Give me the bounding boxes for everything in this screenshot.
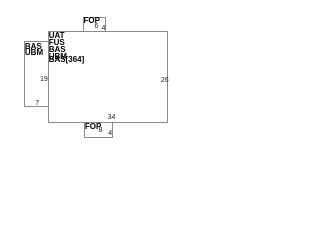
dimension 4 (bottom porch height) <box>108 130 112 137</box>
label BAS[364] <box>49 56 85 64</box>
label BAS <box>49 46 66 54</box>
dimension 8 (bottom porch width) <box>99 127 103 134</box>
top porch label FOP <box>84 17 100 25</box>
left wing label BAS <box>25 43 42 51</box>
left wing outline (BAS/UBM section) <box>24 41 49 107</box>
dimension 6 (top porch width) <box>95 23 99 30</box>
bottom porch label FOP <box>85 123 101 131</box>
label FUS <box>49 39 65 47</box>
bottom porch outline (FOP) <box>84 122 113 138</box>
dimension 4 (top porch height) <box>102 25 106 32</box>
label UBM <box>49 53 67 61</box>
label UAT <box>49 32 65 40</box>
main building outline (BAS/FUS/UAT/UBM section) <box>48 31 168 123</box>
dimension 7 (left wing width) <box>35 100 39 107</box>
left wing label UBM <box>25 49 43 57</box>
dimension 19 (left wing height) <box>40 76 48 83</box>
top porch outline (FOP) <box>83 17 106 32</box>
dimension 26 (main height) <box>161 77 169 84</box>
dimension 34 (main width) <box>108 114 116 121</box>
